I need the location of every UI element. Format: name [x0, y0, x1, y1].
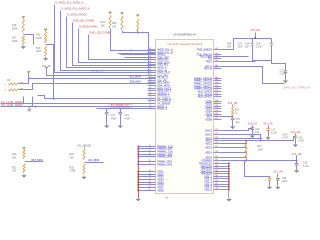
junction — [130, 50, 132, 52]
wire C24 bottom — [253, 46, 272, 61]
svg-text:4: 4 — [5, 84, 7, 86]
resistor R25 — [83, 164, 85, 174]
pin TDI (right) — [208, 57, 221, 60]
pin PWMH1_DAT (left) — [138, 153, 173, 156]
svg-text:100K: 100K — [36, 37, 42, 40]
wire SDA_MON — [19, 84, 156, 90]
ground — [275, 186, 280, 190]
ground — [104, 125, 109, 129]
wire C25 bottom — [272, 46, 286, 71]
svg-text:72: 72 — [149, 147, 151, 149]
wire ADC4 stub — [222, 152, 246, 154]
svg-text:R28: R28 — [227, 43, 232, 45]
pin CLK_SEL (left) — [148, 74, 169, 77]
pin RSVD_1 (left) — [148, 105, 168, 108]
pin VSS_4 (right) — [204, 183, 229, 186]
pin VSS5 (left) — [138, 181, 164, 184]
wire RTCK to GPIO_ALT — [222, 67, 285, 84]
junction — [228, 189, 230, 191]
junction — [137, 32, 139, 34]
resistor R22 — [83, 149, 85, 160]
wire net G_MOD_AVDD — [79, 29, 156, 63]
pin PX_COM_B (left) — [148, 99, 172, 102]
resistor R27 — [245, 142, 247, 159]
svg-text:135: 135 — [215, 167, 218, 169]
resistor R17 — [22, 36, 24, 45]
pin AVDD_PLL_B (left) — [148, 51, 174, 54]
wire — [232, 105, 234, 107]
svg-text:47pF: 47pF — [111, 117, 117, 120]
wire PX_COM_HDR1 — [1, 103, 156, 105]
ground — [283, 80, 288, 84]
svg-text:1uF: 1uF — [236, 122, 241, 124]
svg-text:< TX_PL_1 >: < TX_PL_1 > — [90, 70, 104, 73]
junction — [137, 151, 139, 153]
ferrite bead FB1 — [28, 107, 32, 112]
junction — [53, 98, 55, 100]
junction — [245, 160, 247, 162]
svg-text:C17: C17 — [271, 130, 276, 132]
junction — [245, 143, 246, 144]
svg-text:4.7uF: 4.7uF — [282, 138, 288, 140]
svg-text:G_MOD_PLL_AVDD_A: G_MOD_PLL_AVDD_A — [55, 1, 83, 5]
svg-text:129: 129 — [215, 146, 218, 148]
wire staircase2 — [38, 96, 156, 99]
svg-text:117: 117 — [215, 102, 218, 104]
capacitor C16 — [251, 128, 255, 130]
wire SCL_MON — [19, 79, 156, 84]
wire SCL_PU — [28, 74, 30, 79]
ground — [226, 198, 231, 202]
pin VSS2 (left) — [138, 173, 164, 176]
svg-text:C27: C27 — [280, 71, 285, 73]
wire — [232, 120, 234, 126]
pin TRST (right) — [205, 60, 221, 63]
pin PWMH0_CLK (left) — [138, 145, 173, 148]
pin TX_PL_1 (left) — [148, 76, 169, 79]
svg-text:DAC0: DAC0 — [205, 129, 212, 132]
resistor R24 — [137, 19, 139, 31]
junction — [245, 151, 246, 152]
wire C27 gnd — [285, 73, 287, 80]
wire bundle extra 3 — [125, 57, 156, 59]
junction — [137, 153, 139, 155]
pin VSS_6 (right) — [204, 188, 229, 191]
svg-text:4.99K: 4.99K — [70, 170, 77, 173]
svg-text:10uF: 10uF — [282, 181, 288, 183]
junction — [137, 161, 139, 163]
wire divider1 tap — [24, 35, 34, 45]
wire 3V3 drop — [255, 33, 257, 39]
pin AVDD_M (left) — [148, 58, 168, 61]
resistor R20 — [23, 150, 25, 159]
svg-text:101: 101 — [215, 48, 218, 50]
junction — [28, 77, 30, 79]
pin GND_QDC (left) — [148, 61, 170, 64]
wire ADC2 stub — [222, 143, 246, 145]
svg-text:3V3_UR: 3V3_UR — [250, 29, 260, 32]
pin SDA_MON (left) — [148, 84, 170, 87]
pin VDD0 (right) — [205, 100, 221, 103]
resistor R23 — [109, 16, 111, 29]
pin AVSS_A (left) — [148, 66, 167, 69]
wire divider2 tap — [46, 45, 54, 99]
svg-text:ADC2: ADC2 — [205, 142, 212, 145]
capacitor C18 — [294, 136, 298, 138]
wire bundle extra 2 — [121, 54, 156, 56]
pin FILT (right) — [207, 115, 221, 118]
svg-text:3V3_UR: 3V3_UR — [248, 123, 258, 126]
svg-text:81: 81 — [149, 178, 151, 180]
svg-text:10K: 10K — [12, 170, 17, 173]
svg-text:76: 76 — [149, 160, 151, 162]
wire TX_SENSE — [97, 108, 156, 110]
junction — [106, 108, 108, 110]
pin VSS7 (left) — [138, 186, 164, 189]
wire TRST — [222, 61, 256, 63]
svg-text:VSS_6: VSS_6 — [204, 188, 212, 191]
pin TRACED3 (right) — [200, 172, 229, 175]
svg-text:C23: C23 — [238, 43, 243, 45]
pin ADC1 (right) — [205, 139, 221, 142]
pin TRACED2 (right) — [200, 170, 229, 173]
pin PWM2_GPIO26 (right) — [194, 82, 221, 85]
ground — [21, 45, 26, 49]
wire — [252, 130, 254, 135]
power flag VTREF — [22, 16, 25, 19]
pin VDD6 (right) — [205, 118, 221, 121]
junction — [228, 170, 230, 172]
svg-text:VSS8: VSS8 — [157, 189, 164, 192]
pin PWM3_GPIO27 (right) — [194, 85, 221, 88]
svg-text:100K: 100K — [36, 50, 42, 53]
svg-text:143: 143 — [215, 188, 218, 190]
svg-text:PWMH_GPI2: PWMH_GPI2 — [157, 163, 173, 166]
pin VDD2 (right) — [205, 105, 221, 108]
pin MON_OUT2 (left) — [148, 89, 172, 92]
svg-text:115: 115 — [215, 95, 218, 97]
pin PWMH_GPI2 (left) — [138, 163, 173, 166]
junction — [137, 171, 139, 173]
pin VSS_3 (right) — [204, 180, 229, 183]
pin MON_OUT1 (left) — [148, 87, 172, 90]
junction — [245, 147, 246, 148]
pin VSS_2 (right) — [204, 177, 229, 180]
pin VSS8 (left) — [138, 189, 164, 192]
microcontroller U1 — [156, 40, 214, 194]
ground — [136, 198, 141, 202]
svg-text:49: 49 — [149, 94, 151, 96]
pin TRACED1 (right) — [200, 167, 229, 170]
wire VDDREG — [222, 160, 297, 162]
svg-text:TX_SENSE_OK: TX_SENSE_OK — [111, 105, 129, 108]
ground — [21, 174, 26, 178]
svg-text:RST_MON: RST_MON — [32, 160, 44, 162]
junction — [137, 179, 139, 181]
svg-text:VDD_QD_COMB: VDD_QD_COMB — [73, 19, 94, 23]
wire — [268, 131, 270, 137]
svg-text:122: 122 — [215, 115, 218, 117]
svg-text:75: 75 — [149, 155, 151, 157]
svg-text:104: 104 — [215, 57, 218, 59]
svg-text:119: 119 — [215, 107, 218, 109]
svg-text:LPC4088FBD144: LPC4088FBD144 — [173, 33, 196, 37]
svg-text:GND_QD_COMB: GND_QD_COMB — [89, 31, 110, 35]
svg-text:123: 123 — [215, 118, 218, 120]
svg-text:109: 109 — [215, 79, 218, 81]
svg-text:78: 78 — [149, 170, 151, 172]
capacitor C28 polarized — [269, 177, 271, 179]
svg-text:SCL_MON: SCL_MON — [130, 76, 141, 78]
svg-text:125: 125 — [215, 133, 218, 135]
junction — [228, 168, 230, 170]
junction — [269, 176, 271, 178]
wire net G_MOD_PLL_AVDD_B — [61, 11, 156, 71]
svg-text:110: 110 — [215, 82, 218, 84]
pin TDO_SWO (right) — [199, 55, 221, 58]
svg-text:113: 113 — [215, 90, 218, 92]
svg-text:C18: C18 — [298, 137, 303, 139]
pin VSS4 (left) — [138, 178, 164, 181]
svg-text:* do not fit in assembly for t: * do not fit in assembly for testing — [167, 43, 203, 46]
wire — [268, 126, 270, 129]
wire CAL_A — [47, 70, 156, 76]
power flag 3V3_UR — [44, 28, 47, 31]
svg-text:10nF: 10nF — [238, 46, 244, 48]
svg-text:DAC1: DAC1 — [205, 133, 212, 136]
capacitor C29 — [276, 178, 280, 180]
wire FILT node — [232, 116, 234, 118]
svg-text:132: 132 — [215, 159, 218, 161]
svg-text:107: 107 — [215, 67, 218, 69]
pin VDD1 (right) — [205, 102, 221, 105]
wire to cluster E — [245, 161, 270, 177]
resistor R29 — [121, 16, 123, 30]
svg-text:G_MOD_AVDD: G_MOD_AVDD — [79, 25, 98, 29]
pin XTAL_OUT (left) — [148, 71, 171, 74]
pin TCK_SWCLK (right) — [197, 53, 222, 56]
svg-text:TRST: TRST — [205, 60, 212, 63]
wire C13 gnd — [106, 114, 108, 125]
junction — [137, 148, 139, 150]
pin PWMH1_CLK (left) — [138, 150, 173, 153]
wire PX_COM_HDR2 — [1, 106, 156, 108]
svg-text:112: 112 — [215, 87, 218, 89]
pin VDD_PLL (left) — [148, 63, 169, 66]
junction — [228, 176, 230, 178]
wire — [296, 165, 298, 170]
pin VSS_1 (right) — [204, 175, 229, 178]
svg-text:128: 128 — [215, 142, 218, 144]
wire net G_MOD_AVDD2 — [67, 17, 156, 68]
svg-text:G_MOD_PLL_AVDD_B: G_MOD_PLL_AVDD_B — [61, 7, 89, 11]
svg-text:NC: NC — [34, 106, 38, 108]
pin PX_COM_A (left) — [148, 97, 172, 100]
pin RST_A (right) — [204, 67, 221, 70]
ground — [230, 126, 235, 130]
svg-text:85: 85 — [149, 189, 151, 191]
svg-text:42: 42 — [149, 76, 151, 78]
junction — [254, 37, 256, 39]
svg-text:127: 127 — [215, 139, 218, 141]
svg-text:ADC3: ADC3 — [205, 146, 212, 149]
svg-text:R26: R26 — [235, 110, 240, 112]
svg-text:137: 137 — [215, 172, 218, 174]
GND bus (left) — [138, 147, 140, 198]
wire ADC1 route — [222, 137, 296, 141]
ground — [81, 176, 86, 180]
svg-text:1uF: 1uF — [245, 46, 250, 48]
ground — [118, 125, 123, 129]
wire R27 bottom — [246, 159, 248, 161]
svg-text:37: 37 — [149, 63, 151, 65]
svg-text:131: 131 — [215, 156, 218, 158]
junction — [260, 140, 262, 142]
svg-text:G_MOD_AVDD2: G_MOD_AVDD2 — [67, 13, 88, 17]
ground — [265, 136, 270, 140]
pin PWM4_GPIO28 (right) — [194, 87, 221, 90]
svg-text:10K: 10K — [227, 46, 232, 48]
pin PWMH_GPI1 (left) — [138, 160, 173, 163]
pin DAC0 (right) — [205, 129, 221, 132]
pin XTAL_IN (left) — [148, 69, 168, 72]
pin STATUS_2 (left) — [148, 94, 170, 97]
pin RSVD_2 (left) — [148, 107, 168, 110]
svg-text:120: 120 — [215, 110, 218, 112]
wire DAC0 to cluster A — [222, 129, 253, 131]
power flag RST_PF — [22, 147, 25, 150]
capacitor C25 — [271, 39, 273, 44]
svg-text:3V3_UR: 3V3_UR — [263, 123, 273, 126]
junction — [137, 189, 139, 191]
svg-text:0.1uF: 0.1uF — [303, 166, 309, 168]
svg-text:105: 105 — [215, 60, 218, 62]
svg-text:124: 124 — [215, 129, 218, 131]
pin PWM1_GPIO25 (right) — [194, 79, 221, 82]
pin PWM0_GPIO24 (right) — [194, 77, 221, 80]
svg-text:100K: 100K — [12, 27, 18, 30]
pin VDDREG (right) — [201, 159, 221, 162]
svg-text:C26: C26 — [303, 163, 308, 165]
svg-text:RST_A: RST_A — [204, 67, 212, 70]
capacitor C27 — [284, 71, 288, 73]
junction — [296, 160, 298, 162]
pin AUX_GPIO6 (right) — [198, 93, 222, 96]
wire net VDD_QD_COMB — [73, 23, 156, 66]
hierarchical label TX_SENSE — [109, 104, 133, 108]
svg-text:0.1uF: 0.1uF — [256, 46, 262, 48]
svg-text:0.1uF: 0.1uF — [271, 133, 277, 135]
svg-text:GPIO_ALT_PWM_M: GPIO_ALT_PWM_M — [283, 86, 310, 90]
svg-text:10K: 10K — [12, 156, 17, 159]
svg-text:C16: C16 — [255, 129, 260, 131]
resistor R19 — [45, 46, 47, 57]
capacitor C26 — [296, 161, 298, 164]
pin SCL_MON (left) — [148, 81, 170, 84]
wire — [277, 174, 279, 178]
pin ADC0 (right) — [205, 137, 221, 140]
svg-text:3V3_UR: 3V3_UR — [291, 131, 301, 134]
svg-text:100K: 100K — [257, 148, 263, 151]
wire — [269, 181, 271, 186]
svg-text:31: 31 — [149, 48, 151, 50]
svg-text:PWMH_GPI0: PWMH_GPI0 — [157, 155, 173, 158]
pin TX_SENSE (left) — [148, 102, 171, 105]
junction — [243, 160, 245, 162]
capacitor C15 — [231, 118, 235, 120]
pin VSS6 (left) — [138, 183, 164, 186]
junction — [23, 103, 25, 105]
junction — [137, 181, 139, 183]
svg-text:10: 10 — [235, 113, 238, 115]
wire C14 gnd — [120, 114, 122, 125]
pin AUX_GPIO7 (right) — [198, 95, 222, 98]
svg-text:AUX_GPIO7: AUX_GPIO7 — [198, 95, 213, 98]
svg-text:R6: R6 — [7, 79, 11, 82]
wire — [296, 156, 298, 161]
wire — [295, 134, 297, 136]
svg-text:83: 83 — [149, 183, 151, 185]
junction — [245, 140, 247, 142]
pin VSS1 (left) — [138, 170, 164, 173]
pin AVDD2 (left) — [148, 53, 166, 56]
wire — [295, 138, 297, 144]
wire RST_MON tap — [25, 161, 44, 163]
wire CAL_MON tap — [85, 162, 104, 164]
pin VDD3 (right) — [205, 107, 221, 110]
pin AVDD_PLL_A (left) — [148, 48, 174, 51]
ground — [267, 186, 272, 190]
svg-text:10K: 10K — [101, 24, 106, 27]
pin TRACECLK (right) — [199, 162, 229, 165]
svg-text:VDD6: VDD6 — [205, 118, 212, 121]
junction — [228, 186, 230, 188]
pin RTCK (right) — [205, 65, 221, 68]
ground — [250, 135, 255, 139]
svg-text:130: 130 — [215, 151, 218, 153]
wire ADC0 route — [222, 138, 263, 140]
pin VDD_QDC (left) — [148, 56, 170, 59]
svg-text:TMS_SWDIO: TMS_SWDIO — [197, 48, 212, 51]
svg-text:C25: C25 — [256, 43, 261, 45]
wire — [84, 147, 86, 149]
ground — [294, 169, 299, 173]
junction — [137, 163, 139, 165]
pin PWMH_GPI0 (left) — [138, 155, 173, 158]
power flag 3V3_PLL — [108, 11, 111, 14]
junction — [137, 146, 139, 148]
wire — [277, 181, 279, 186]
ground — [43, 57, 48, 61]
junction — [137, 156, 139, 158]
svg-text:84: 84 — [149, 186, 151, 188]
wire TDO — [222, 56, 249, 58]
svg-text:73: 73 — [149, 150, 151, 152]
svg-text:C15: C15 — [236, 119, 241, 121]
svg-text:3V3_UR: 3V3_UR — [273, 171, 283, 174]
wire QD chain — [123, 31, 149, 75]
pin VDD4 (right) — [205, 110, 221, 113]
svg-text:47: 47 — [149, 89, 151, 91]
wire ADC5 stub — [222, 157, 246, 159]
svg-text:CAL_MON: CAL_MON — [88, 159, 99, 162]
svg-text:ADC4: ADC4 — [205, 151, 212, 154]
pin TRACED0 (right) — [200, 165, 229, 168]
wire stub staircase — [23, 97, 25, 104]
svg-text:100K: 100K — [12, 40, 18, 43]
svg-text:10K: 10K — [112, 25, 117, 28]
wire R23 to pin — [111, 29, 156, 51]
